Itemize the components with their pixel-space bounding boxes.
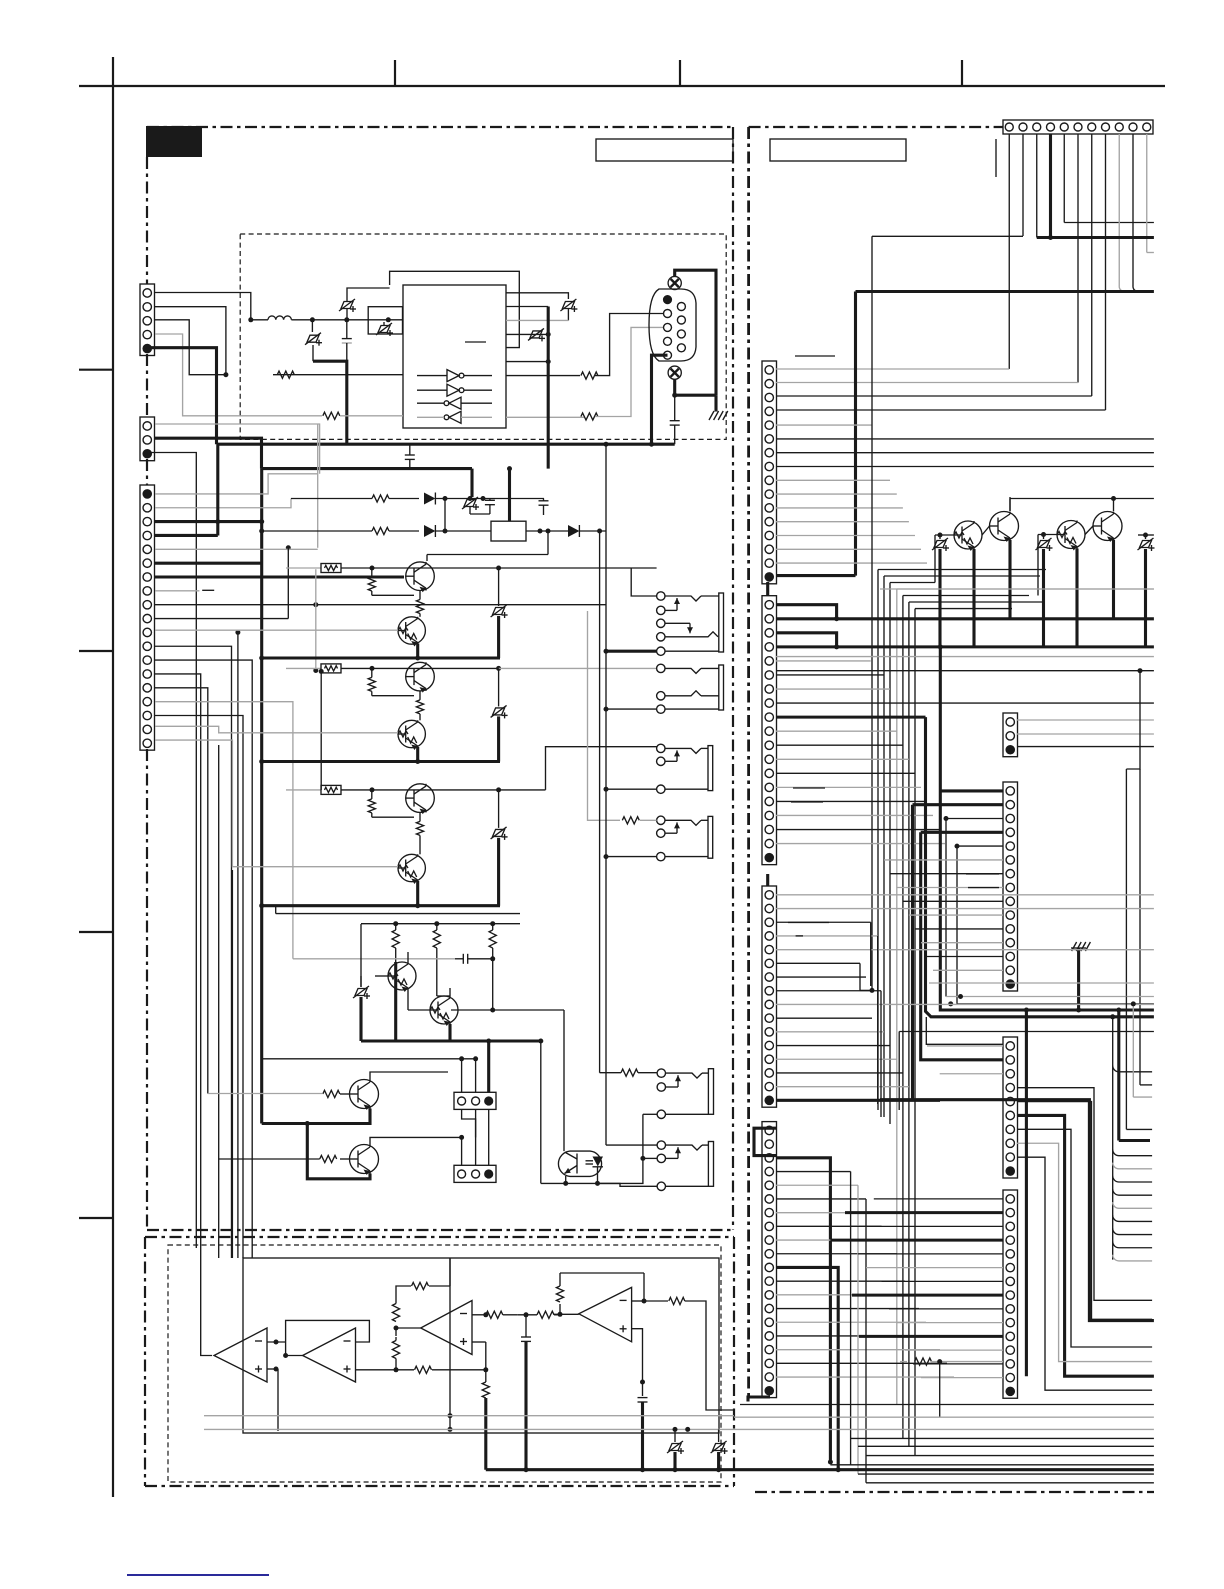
- transistor Q14: [1085, 499, 1122, 543]
- jack J1 top wire: [631, 568, 656, 596]
- thick bus 291: [856, 290, 1154, 293]
- hook fan wires: [1110, 1014, 1152, 1261]
- chassis ground: [709, 411, 728, 420]
- CN-R1 p16 wire thick: [776, 574, 856, 577]
- tap 1140: [1140, 1084, 1152, 1086]
- relay driver block3 (Q5/Q6): [259, 784, 545, 908]
- block2 T2 base gray: [155, 726, 398, 733]
- jack J1 thick feed: [604, 649, 657, 654]
- transistor Q10: [340, 1145, 379, 1176]
- vertical 1140 jog: [1126, 671, 1140, 1085]
- wire thick CN-A pin5: [148, 348, 217, 445]
- capacitor C-d2: [539, 499, 549, 516]
- wire CN-C p12: [155, 646, 232, 1258]
- opto-coupler PC1: [558, 1151, 603, 1176]
- resistor R-d2: [372, 527, 389, 534]
- CN-R1 p6 wire: [776, 438, 1154, 440]
- CN-R2 p8 wire: [776, 702, 1154, 704]
- CN-R3 p3 wire: [776, 921, 871, 923]
- thick relay feed: [507, 466, 512, 521]
- CN-M3 p8 loop gray: [1017, 1143, 1152, 1361]
- CN-T p5 drop: [1064, 134, 1154, 223]
- right board small mark: [995, 139, 997, 177]
- connector CN-T (11-pin edge): [1003, 120, 1153, 134]
- wire CN-C p2 gray: [155, 499, 291, 508]
- transistor Q8 (digital): [408, 996, 458, 1026]
- jack J3 feed riser: [546, 747, 657, 790]
- varistor D-c: [376, 320, 393, 336]
- connector CN-C (19-pin): [140, 485, 155, 750]
- long rail 1417 gray: [734, 1416, 1154, 1418]
- CN-T p6 drop: [776, 134, 1078, 383]
- jack J5 feed: [600, 1069, 657, 1076]
- CN-R1 p12 wire: [776, 521, 909, 523]
- CN-R1 p9 wire: [776, 479, 890, 481]
- DB9 screw top: [668, 276, 681, 289]
- inductor L1: [268, 316, 291, 320]
- wire row1 right: [443, 496, 545, 501]
- CN-R2 p6 wire: [776, 674, 884, 676]
- wire CN-C p5 gray: [155, 548, 318, 550]
- rail 1044 to CN-M3: [926, 1017, 1003, 1044]
- resistor R-b4: [208, 1090, 340, 1097]
- CN-M2 p11 wire: [915, 928, 1003, 930]
- capacitor C-b: [405, 444, 415, 468]
- block1 collector link: [427, 529, 551, 562]
- CN-R2 p12 wire: [776, 758, 909, 760]
- CN-R4 p8 wire: [776, 1225, 882, 1227]
- CN-R4 p16 wire: [776, 1335, 933, 1337]
- long rail 1455: [866, 1455, 1154, 1457]
- CN-R4 p14 wire: [776, 1308, 919, 1310]
- U1 buffer 1: [417, 370, 492, 382]
- wire CN-C p11: [235, 630, 240, 1258]
- CN-R3 p9 wire: [776, 1003, 1154, 1005]
- wire row2 out: [526, 529, 568, 534]
- signal ground GND1: [1071, 942, 1090, 1013]
- thick bus 237: [1037, 236, 1154, 239]
- CN-R4 bottom bracket: [748, 1397, 770, 1402]
- wire CN-C p16 gray: [155, 702, 293, 959]
- row1 wire: [291, 498, 419, 500]
- gray rail A: [204, 1415, 734, 1417]
- U3 input wires: [267, 1340, 286, 1432]
- base risers: [935, 535, 1038, 596]
- varistor D-g: [353, 976, 370, 1041]
- CN-T p9 drop gray: [1119, 134, 1124, 292]
- CN-H drops: [462, 1039, 492, 1166]
- wire from CN-A pin3: [155, 320, 226, 375]
- U6 plus wire: [632, 1329, 645, 1396]
- jack J3 (3-contact): [657, 744, 713, 793]
- transistor Q12: [982, 497, 1019, 542]
- bottom analog inner dashed box: [168, 1245, 721, 1482]
- Q9 collector wire: [370, 1059, 462, 1093]
- thick analog gnd bus: [486, 1467, 838, 1472]
- varistor D-f: [462, 497, 479, 510]
- U1 top loop wire: [390, 271, 520, 347]
- wire CN-B pin3: [148, 453, 197, 1249]
- loop rect wire: [243, 1258, 719, 1433]
- connector CN-R1 (16-pin): [762, 361, 777, 584]
- right board border (dash-dot): [749, 127, 1154, 1492]
- wire rail 1058: [262, 1056, 478, 1061]
- CN-T p8 drop: [776, 134, 1106, 410]
- long rail 1446: [858, 1445, 1154, 1447]
- varistor D-i1: [932, 535, 949, 647]
- Q8 collector: [437, 988, 450, 996]
- varistor D-a: [339, 288, 390, 320]
- CN-R3 p10 wire: [776, 1017, 872, 1019]
- block3 T2 base gray: [155, 740, 398, 867]
- CN-M2 p4 thick: [921, 832, 1003, 1060]
- long rail 1404: [740, 1404, 1154, 1406]
- varistor D-h2: [711, 1429, 728, 1469]
- DB9 screw bottom: [668, 366, 681, 379]
- rail 670: [776, 668, 1154, 673]
- CN-R4 p10 wire: [776, 1253, 897, 1255]
- resistor R-234: [506, 314, 663, 380]
- connector CN-R4 (20-pin): [762, 1122, 777, 1398]
- thin feed block2: [319, 669, 324, 790]
- connector CN-R3 (16-pin): [762, 886, 777, 1107]
- top tick 1: [394, 60, 396, 86]
- CN-R1 p5 wire: [776, 424, 872, 426]
- CN-R4 p17 wire: [776, 1349, 940, 1351]
- CN-R4 drops: [851, 1172, 866, 1483]
- tap 1133 gray: [1131, 1001, 1152, 1097]
- CN-M4 p1 left wire: [874, 1198, 1003, 1200]
- capacitor C-db9: [670, 395, 680, 444]
- top tick 2: [679, 60, 681, 86]
- CN-R3 p2 wire: [776, 908, 1154, 910]
- resistor R-b2: [433, 924, 440, 996]
- connector CN-B (3-pin): [140, 417, 155, 461]
- gray feed block1: [313, 569, 318, 673]
- CN-T p11 drop gray: [1147, 134, 1154, 253]
- block3 thin rail: [276, 906, 520, 914]
- DB9 pins: [664, 296, 686, 360]
- diode D2: [424, 525, 491, 537]
- wire from CN-A pin2: [155, 307, 226, 375]
- wire CN-C p4 thick: [155, 444, 218, 535]
- opto wires: [541, 1010, 643, 1183]
- CN-R2 p1 wire thick: [776, 605, 839, 622]
- CN-R4 p15 wire: [776, 1321, 926, 1323]
- CN-R3 p7 wire: [776, 976, 866, 978]
- CN-R2 p16 wire: [776, 814, 933, 816]
- wire thick gnd-stub: [313, 361, 347, 444]
- capacitor C-u5: [521, 1315, 531, 1470]
- CN-R2 p5 wire: [776, 660, 871, 662]
- wire CN-C p17: [155, 716, 243, 1259]
- Q7 wires: [407, 952, 409, 996]
- top tick 3: [961, 60, 963, 86]
- U6 minus wire: [632, 1297, 734, 1410]
- DB9 ground wire thick: [672, 270, 716, 411]
- CN-R4 p4 wire: [776, 1171, 851, 1173]
- CN-R4 thick bracket: [754, 1128, 776, 1155]
- connector CN-M2 (15-pin): [1003, 782, 1018, 991]
- thick drop 925: [926, 717, 1154, 1017]
- Q9 emitter thick: [262, 1109, 370, 1127]
- gray rail 589: [880, 588, 1154, 590]
- CN-M4 thick left p2: [845, 1211, 1003, 1214]
- diode D3: [568, 525, 606, 537]
- capacitor C-u6: [638, 1398, 648, 1470]
- connector CN-H2 (3-pin): [454, 1165, 496, 1182]
- wire CN-C p8 gray: [155, 590, 199, 592]
- resistor R-232b (gray): [323, 412, 403, 419]
- thick gnd bus b: [361, 1039, 543, 1044]
- CN-R3 label a: [788, 922, 829, 936]
- gray rail 656: [776, 656, 1154, 658]
- op-amp U5 (large): [421, 1301, 472, 1355]
- thick vert 1026: [1024, 1008, 1029, 1377]
- jack J4 (3-contact): [657, 816, 713, 861]
- wire CN-B pin1 gray: [155, 424, 320, 474]
- Q10 collector wire: [370, 1109, 476, 1165]
- CN-R2 labels: [791, 788, 825, 802]
- CN-R3 p12 wire: [776, 1045, 890, 1047]
- jack J3 gnd wire: [604, 787, 657, 792]
- bundle lower links: [860, 922, 881, 1117]
- CN-R2 p11 wire: [776, 744, 903, 746]
- CN-R3 p5 wire: [776, 949, 1154, 951]
- transistor Q7 (digital): [375, 962, 416, 992]
- CN-M2 p8 wire: [897, 887, 1003, 889]
- wire CN-C p14: [155, 674, 212, 1356]
- CN-R1 p15 wire: [776, 562, 927, 564]
- connector CN-M4 (15-pin): [1003, 1190, 1018, 1398]
- jack J4 gnd wire: [604, 854, 657, 859]
- connector CN-A (5-pin): [140, 284, 155, 356]
- jack J5 (3-contact): [657, 1069, 713, 1119]
- board title block (filled): [146, 126, 202, 157]
- relay box K1: [491, 521, 526, 541]
- left tick 2: [79, 650, 113, 652]
- CN-R2 p7 wire: [776, 688, 890, 690]
- CN-M4 p10 left wire: [897, 1322, 1003, 1324]
- CN-M3 p7 loop: [1017, 1129, 1152, 1347]
- jack J4 feed gray: [588, 611, 657, 824]
- CN-M4 thick left p11: [859, 1335, 1003, 1338]
- relay driver block2 (Q3/Q4): [259, 662, 656, 764]
- long rail 1474: [858, 1473, 1154, 1475]
- CN-M4 resistor gray: [900, 1358, 1003, 1417]
- wire CN-C p7 thick: [155, 575, 404, 578]
- wire from CN-A pin1: [155, 293, 251, 320]
- CN-R2 p13 wire: [776, 772, 915, 774]
- wire CN-C p1 gray: [155, 474, 318, 494]
- U5 minus path: [472, 1311, 560, 1318]
- wire CN-C p13: [155, 660, 252, 1258]
- DB9 connector J-RS232 body: [649, 289, 696, 361]
- dash-dot between connectors: [146, 354, 148, 1230]
- capacitor C-e: [455, 954, 495, 964]
- CN-R4 p7 wire: [776, 1212, 874, 1214]
- varistor D-e: [528, 328, 545, 341]
- block1 T2 base gray: [155, 629, 398, 631]
- CN-M3 p6 loop thick: [1017, 1115, 1154, 1376]
- CN-M4 p14 left wire: [921, 1377, 1003, 1379]
- wire U1 right a: [506, 293, 568, 299]
- long rail 1430 gray: [734, 1428, 1154, 1430]
- thick spine 855: [854, 292, 857, 576]
- top rail wire: [361, 921, 520, 926]
- Q14 emitter: [1112, 540, 1115, 619]
- connector CN-R2/R3 link: [766, 874, 769, 886]
- transistor Q9: [340, 1080, 379, 1111]
- CN-M2 p13 wire: [927, 956, 1003, 958]
- CN-R3 p14 wire: [776, 1072, 903, 1074]
- op-amp U3: [214, 1328, 267, 1382]
- RS232 interface dashed box: [240, 234, 726, 439]
- resistor R-b1: [392, 924, 399, 962]
- bottom analog board border (dash-dot): [145, 1237, 734, 1486]
- label line p8: [202, 589, 214, 591]
- Q12 emitter: [1008, 540, 1011, 619]
- resistor R-233 (gray): [581, 327, 663, 420]
- CN-R2 p15 wire: [776, 800, 927, 802]
- CN-R1 label: [795, 355, 835, 357]
- long rail 1438: [850, 1437, 1154, 1439]
- jack J6 (3-contact): [657, 1141, 713, 1191]
- left tick 3: [79, 931, 113, 933]
- CN-R4 p18 wire: [776, 1362, 947, 1364]
- transistor Q11 (digital): [954, 521, 982, 551]
- CN-T p1 drop: [776, 134, 1009, 369]
- wire U1 right b: [506, 307, 551, 365]
- resistor R-232a: [223, 371, 403, 378]
- row2 wire: [259, 529, 419, 534]
- CN-M3 p9 loop: [1017, 1157, 1152, 1390]
- CN-R2 p18 wire: [776, 843, 945, 845]
- thick bus 647: [776, 644, 1154, 649]
- Q11 emitter thick: [972, 549, 975, 647]
- tap 1118 thick: [1116, 1008, 1150, 1141]
- left board top-right box: [596, 139, 733, 161]
- varistor D-d: [560, 299, 577, 320]
- thick bus 619: [776, 617, 1154, 620]
- IC U1 RS-232 driver box: [403, 285, 506, 428]
- U1 label line: [465, 341, 486, 343]
- vertical pair to bottom: [600, 444, 606, 1145]
- CN-R4 p11 thick out: [776, 1267, 838, 1469]
- U5 plus down: [472, 1342, 486, 1370]
- CN-M2 p7 wire: [890, 873, 1003, 875]
- CN-M4 p7 left wire: [882, 1280, 1003, 1282]
- CN-R4 p13 wire: [776, 1294, 912, 1296]
- CN-M2 p5 wire: [955, 844, 1004, 1004]
- CN-R2 p3 wire thick: [776, 633, 839, 650]
- CN-M4 p12 left wire: [905, 1349, 1003, 1351]
- CN-M2 p12 wire: [921, 942, 1003, 944]
- CN-M1 wires: [1017, 720, 1154, 747]
- Q13 base wire: [1038, 532, 1057, 537]
- jack J5 wire2: [643, 1114, 657, 1158]
- blue footer rule: [127, 1574, 269, 1576]
- rail 498: [1010, 496, 1154, 511]
- CN-R4 p12 wire: [776, 1280, 905, 1282]
- relay driver block1 (Q1/Q2): [259, 562, 656, 661]
- bundle horizontals: [878, 570, 1154, 609]
- CN-R1 p7 wire: [776, 452, 1154, 454]
- CN-R3 p15 wire: [776, 1086, 909, 1088]
- CN-M4 p13 left wire: [913, 1363, 1003, 1365]
- op-amp U6: [579, 1287, 632, 1341]
- U4 wire loop: [286, 1320, 370, 1342]
- resistor R-b3: [489, 924, 496, 959]
- wire CN-B pin2 thick: [155, 438, 262, 468]
- thick spine x=261.7: [260, 469, 263, 1124]
- jack J6 feed: [606, 1145, 657, 1161]
- thick gnd rail right: [836, 1467, 1154, 1472]
- component box U2: [368, 307, 402, 334]
- thick drops to gnd bus: [396, 962, 450, 1041]
- rail 1031: [899, 1032, 1154, 1111]
- connector CN-M1 (3-pin): [1003, 713, 1018, 757]
- page corner mark vertical: [112, 57, 114, 1497]
- tap 1127: [1126, 997, 1152, 1130]
- U1 buffer 2: [417, 384, 492, 396]
- CN-M4 thick left p4: [830, 1239, 1003, 1242]
- wire thick U1-gnd: [547, 307, 550, 469]
- left tick 1: [79, 369, 113, 371]
- CN-M3 left wires: [927, 1046, 1003, 1074]
- gray wire U1 right: [506, 319, 568, 321]
- gray rail: [293, 958, 455, 960]
- wire CN-C p10: [155, 548, 288, 619]
- jack J2 gnd wire: [604, 707, 657, 712]
- gray hook 983: [929, 982, 1154, 984]
- wire from CN-A pin4 (gray): [155, 334, 322, 416]
- op-amp U4: [303, 1328, 356, 1382]
- CN-M4 p9 left wire: [889, 1308, 1003, 1310]
- gray branch v317: [286, 424, 318, 550]
- capacitor C-a: [342, 320, 352, 361]
- CN-R3 p6 wire: [776, 962, 860, 964]
- CN-T p4 drop thick: [1048, 134, 1053, 240]
- CN-M2 p9 wire: [903, 900, 1003, 902]
- CN-R2 p10 wire: [776, 730, 897, 732]
- CN-M4 thick left p8: [852, 1294, 1003, 1297]
- U6 input node: [554, 1312, 579, 1317]
- CN-M4 p5 left wire: [858, 1253, 1003, 1255]
- CN-R2 p14 wire: [776, 786, 921, 788]
- CN-R4 p9 wire: [776, 1239, 889, 1241]
- capacitor C-d1: [470, 496, 495, 514]
- thick bus Y2: [262, 469, 473, 497]
- wire CN-C p15: [155, 688, 208, 1094]
- connector CN-R2 (19-pin): [762, 596, 777, 865]
- U5 feedback res bottom: [392, 1328, 399, 1370]
- CN-M4 p3 left wire: [851, 1225, 1003, 1227]
- thick drop 940: [940, 647, 1154, 1010]
- jack J6 gnd: [541, 1181, 657, 1186]
- thick bus Y1: [217, 442, 675, 447]
- gray wire U1-out: [506, 416, 584, 418]
- CN-R1 p14 wire: [776, 548, 921, 550]
- CN-R3 p4 wire: [776, 935, 878, 937]
- wire CN-C p19 drop: [231, 870, 233, 1258]
- wire v-left: [360, 924, 362, 987]
- resistor R-d1: [372, 495, 389, 502]
- CN-M2 p3 wire: [944, 816, 1004, 997]
- wire mid vertical: [448, 1258, 453, 1432]
- CN-M3 p5 loop: [1017, 1102, 1152, 1320]
- long rail 1483: [866, 1482, 1154, 1484]
